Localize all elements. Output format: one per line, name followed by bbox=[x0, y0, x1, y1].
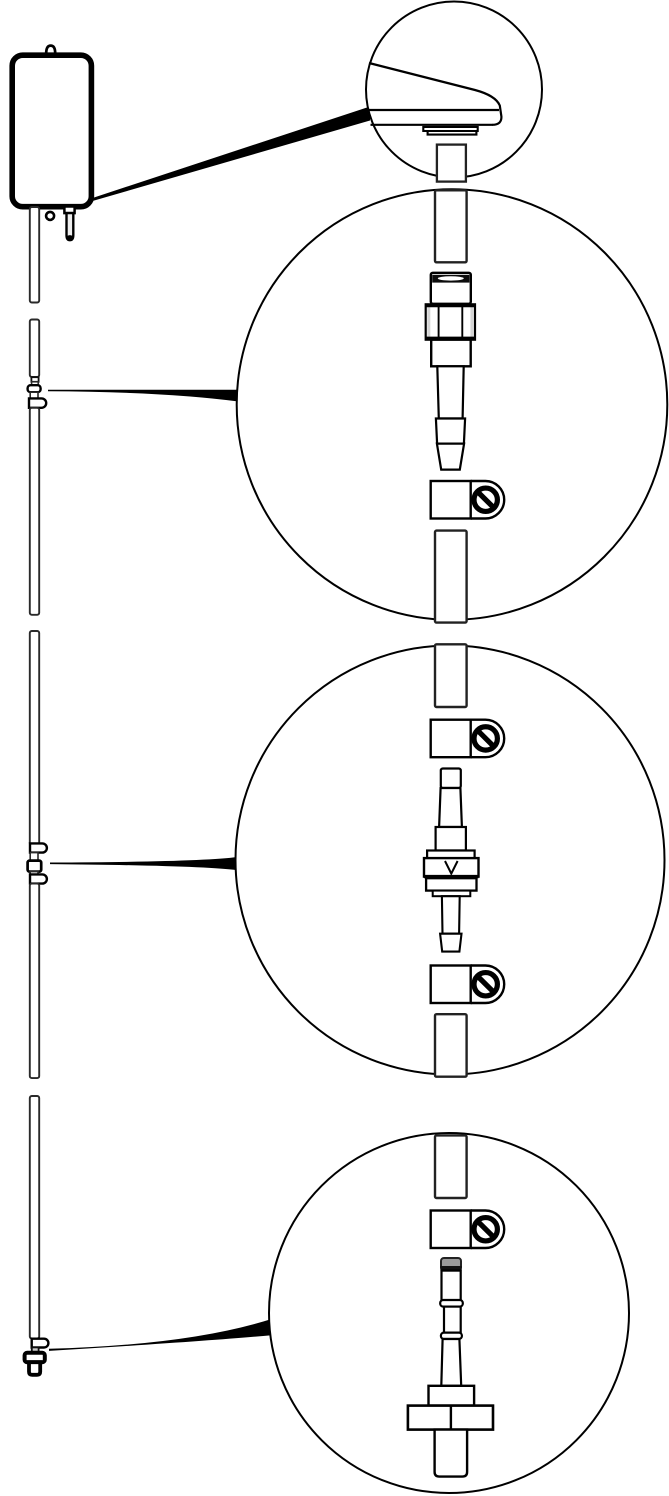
tube at bottom of circle 3 bbox=[435, 1014, 467, 1076]
spike bottom stem bbox=[435, 1430, 468, 1477]
detail circle 1 (magnified bag outlet) bbox=[366, 2, 542, 178]
main tubing segment 1 bbox=[30, 207, 39, 303]
spike shaft section 1 bbox=[442, 1271, 461, 1301]
check valve neck bbox=[439, 788, 462, 827]
mini tubing stub below valve bbox=[30, 872, 38, 875]
leader wedge from bottom junction to detail circle 4 bbox=[49, 1319, 272, 1351]
mini tubing stub above end connector bbox=[32, 1347, 39, 1353]
tube at top of circle 4 bbox=[435, 1135, 467, 1198]
mini clamp above second junction bbox=[30, 843, 47, 852]
barb segment 2 (tip) bbox=[437, 444, 464, 470]
detail circle 4 (magnified end spike) bbox=[269, 1133, 629, 1493]
cap dark collar band bbox=[432, 275, 469, 283]
mini tubing stub above valve bbox=[30, 853, 38, 861]
check valve top tip bbox=[441, 769, 461, 789]
spike shaft section 2 bbox=[444, 1307, 461, 1333]
tube below clamp in circle 2 bbox=[435, 531, 467, 623]
spike cap bbox=[441, 1258, 461, 1271]
leader wedge from bag to detail circle 1 bbox=[93, 107, 371, 202]
main tubing segment 4 bbox=[30, 631, 39, 845]
IV bag bbox=[12, 55, 91, 207]
check valve bottom tip bbox=[440, 934, 461, 952]
slide clamp in circle 2 bbox=[431, 481, 505, 519]
bag hanger tab bbox=[46, 46, 55, 54]
spike upper flange bbox=[429, 1386, 475, 1406]
bag injection port cap bbox=[64, 207, 74, 214]
magnified bag film edge in circle 1 bbox=[368, 63, 502, 125]
collar below nut bbox=[431, 340, 471, 367]
check valve lower shaft bbox=[442, 896, 460, 934]
magnified bag outlet collar bbox=[423, 127, 477, 135]
slide clamp upper in circle 3 bbox=[431, 720, 505, 758]
main tubing segment 5 bbox=[30, 884, 39, 1079]
main tubing segment 3 bbox=[30, 408, 39, 615]
mini connector nut bbox=[28, 385, 41, 392]
mini connector neck bbox=[32, 382, 39, 386]
leader wedge from second junction to detail circle 3 bbox=[50, 857, 238, 870]
slide clamp in circle 4 bbox=[431, 1211, 505, 1249]
detail circle 2 (magnified barb connector and clamp) bbox=[237, 189, 668, 620]
check valve upper collar bbox=[436, 827, 466, 851]
tube at top of circle 3 bbox=[435, 644, 467, 707]
leader wedge from first junction to detail circle 2 bbox=[48, 390, 239, 402]
tube from circle 1 into circle 2 bbox=[435, 190, 467, 262]
check valve lower body bbox=[426, 878, 476, 890]
main tubing segment 6 bbox=[30, 1096, 39, 1339]
mini tubing stub bbox=[30, 392, 38, 399]
mini end-connector flange bbox=[25, 1353, 45, 1362]
spike wide flange bbox=[408, 1406, 493, 1430]
check valve step bbox=[433, 891, 471, 897]
bag injection port stem bbox=[67, 213, 74, 240]
barb connector cap in circle 2 bbox=[431, 273, 471, 304]
hex nut bbox=[426, 304, 475, 339]
mini clamp at bottom junction bbox=[32, 1339, 49, 1348]
mini clamp below second junction bbox=[30, 874, 47, 883]
mini end-connector stem bbox=[29, 1362, 40, 1375]
bag round outlet port bbox=[46, 212, 54, 220]
barb segment 1 bbox=[436, 419, 465, 444]
check valve body with V bbox=[424, 858, 479, 877]
tapering shaft bbox=[437, 366, 463, 418]
slide clamp lower in circle 3 bbox=[431, 966, 505, 1004]
spike rib 2 bbox=[441, 1333, 462, 1339]
mini clamp at first junction bbox=[29, 398, 46, 407]
check valve flange bbox=[427, 851, 475, 859]
spike shaft section 3 bbox=[441, 1339, 461, 1386]
spike rib 1 bbox=[440, 1300, 463, 1307]
mini connector cap at first junction bbox=[31, 377, 38, 382]
detail circle 3 (magnified check valve and clamps) bbox=[236, 646, 665, 1075]
mini check valve body bbox=[28, 861, 42, 872]
tube stub in circle 1 bbox=[437, 145, 466, 182]
main tubing segment 2 bbox=[30, 320, 39, 378]
